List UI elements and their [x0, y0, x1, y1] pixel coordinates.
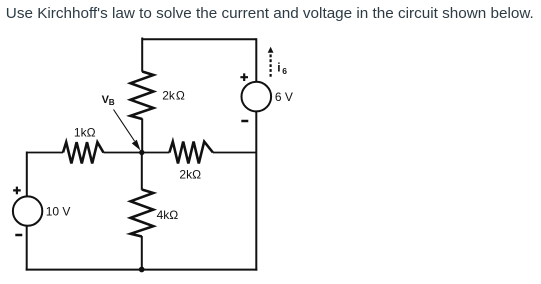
label minus of 6V source	[241, 120, 248, 123]
wire top	[141, 38, 256, 72]
wire main horizontal middle segment	[104, 152, 170, 154]
svg-text:Use Kirchhoff's law to solve t: Use Kirchhoff's law to solve the current…	[6, 5, 534, 22]
voltage source V2 6V circle	[241, 82, 271, 112]
current arrow i6 dashed	[268, 47, 274, 77]
arrow from VB to node B	[114, 110, 141, 151]
node B junction dot	[139, 150, 144, 155]
svg-text:4kΩ: 4kΩ	[157, 208, 179, 222]
wire bottom	[26, 269, 258, 271]
resistor R 1k horizontal	[63, 142, 104, 163]
resistor R 2k horizontal	[169, 142, 213, 164]
wire left vertical upper	[26, 152, 28, 197]
svg-text:i: i	[277, 61, 280, 75]
svg-text:1kΩ: 1kΩ	[74, 126, 96, 140]
label 1kOhm	[74, 126, 96, 140]
wire left vertical lower	[26, 226, 28, 271]
label plus of 10V source	[13, 187, 21, 195]
svg-text:6 V: 6 V	[275, 90, 293, 104]
resistor R 2k vertical	[131, 72, 154, 120]
wire from 4k resistor to bottom	[141, 236, 143, 270]
svg-text:2k Ω: 2k Ω	[162, 89, 185, 103]
title text	[6, 5, 534, 22]
junction dot bottom	[139, 267, 145, 273]
label 2kOhm horizontal	[179, 168, 201, 182]
voltage source V1 10V circle	[13, 196, 42, 225]
svg-text:2kΩ: 2kΩ	[179, 168, 201, 182]
wire right vertical upper	[255, 38, 257, 82]
label 4kOhm	[157, 208, 179, 222]
resistor R 4k vertical	[131, 190, 154, 237]
wire main horizontal left lead	[27, 152, 63, 154]
wire right vertical lower	[255, 111, 257, 270]
label i6	[277, 61, 287, 77]
label 6 V	[275, 90, 293, 104]
label minus of 10V source	[15, 234, 22, 237]
wire from 2k resistor to node	[141, 119, 143, 153]
label 2kOhm vertical	[162, 89, 185, 103]
wire from node B down to 4k resistor	[141, 153, 143, 190]
label 10 V	[46, 205, 71, 219]
label VB	[102, 94, 115, 107]
svg-text:6: 6	[282, 66, 287, 76]
label plus of 6V source	[240, 73, 248, 81]
svg-text:B: B	[109, 98, 115, 107]
svg-text:10 V: 10 V	[46, 205, 71, 219]
wire main horizontal right lead	[213, 152, 256, 154]
